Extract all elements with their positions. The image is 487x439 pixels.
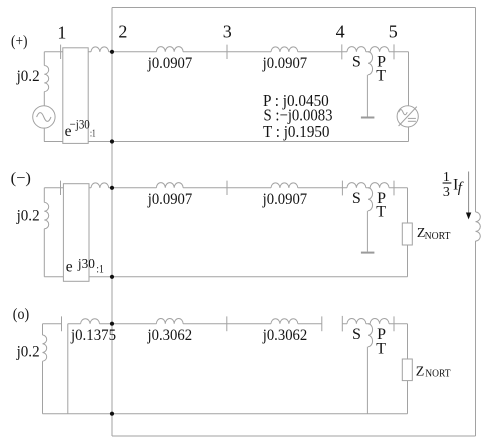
bus tick node 4 (+seq) — [341, 44, 343, 59]
phase shifting transformer box e^j30:1 (-seq) — [63, 184, 89, 282]
wire: 0seq rail from grounding riser through line sections — [68, 323, 322, 325]
svg-text:1: 1 — [57, 22, 66, 42]
inductor j0.3062 (bus2-bus3 line, 0seq) — [156, 319, 183, 324]
label e^-j30 : 1 (+seq box) — [65, 116, 96, 140]
svg-text:NORT: NORT — [425, 369, 451, 380]
inductor j0.2 (-seq source impedance) — [44, 202, 48, 228]
svg-text:T: T — [376, 340, 386, 357]
phase shifting transformer box e^-j30:1 (+seq) — [63, 48, 88, 144]
wire: -seq left column — [43, 188, 45, 277]
wire: 0seq right column — [407, 324, 409, 414]
svg-text:3: 3 — [223, 21, 232, 41]
three-winding transformer T winding (0seq, vertical) — [368, 324, 373, 347]
wire: -seq right column — [407, 188, 409, 277]
resistor Z_NORT (-seq Norton impedance) — [402, 223, 412, 245]
svg-text:j0.2: j0.2 — [16, 207, 40, 224]
three-winding transformer P winding (0seq) — [370, 319, 389, 324]
AC/DC converter source (+seq, right) — [397, 106, 418, 127]
inductor j0.1375 (0seq transformer) — [81, 319, 100, 324]
junction dot node 2 (0seq top) — [110, 322, 114, 326]
junction dot (+seq bottom rail) — [110, 139, 114, 143]
svg-text:(+): (+) — [11, 33, 28, 50]
junction dot node 2 (-seq top) — [110, 186, 114, 190]
inductor j0.0907 (bus3-bus4 line, -seq) — [271, 183, 298, 188]
current arrow 1/3 If — [466, 172, 471, 220]
svg-text:2: 2 — [118, 22, 127, 42]
inductor j0.3062 (bus3-bus4 line, 0seq) — [271, 319, 298, 324]
wire: -seq top rail — [44, 187, 407, 189]
wire: outer fault loop right rail lower segment — [475, 241, 477, 436]
bus tick open end left (0seq, delta block) — [321, 316, 323, 331]
text block P/S/T impedance values — [263, 91, 333, 141]
svg-text:j0.0907: j0.0907 — [262, 55, 308, 72]
svg-text:j0.0907: j0.0907 — [262, 191, 308, 208]
svg-text::1: :1 — [90, 128, 96, 140]
three-winding transformer P winding (+seq) — [370, 47, 389, 52]
svg-text:S: S — [352, 190, 361, 207]
wire: -seq bottom rail — [44, 276, 407, 278]
three-winding transformer S winding (-seq) — [347, 183, 366, 188]
wire: 0seq bottom rail — [43, 413, 408, 415]
ground (-seq T winding) — [361, 252, 375, 254]
svg-text:f: f — [458, 180, 464, 196]
bus tick node 3 (+seq) — [226, 45, 228, 59]
bus tick node 3 (0seq) — [226, 316, 228, 331]
ground (+seq T winding) — [361, 117, 375, 119]
inductor on fault return path (right rail coil) — [476, 212, 481, 241]
junction dot (0seq bottom rail) — [110, 412, 114, 416]
resistor Z_NORT (0seq Norton impedance) — [402, 359, 412, 381]
svg-text:j30: j30 — [77, 256, 95, 271]
bus tick node 5 (-seq) — [393, 181, 395, 196]
svg-text:4: 4 — [336, 21, 345, 41]
bus tick node 5 (0seq) — [393, 316, 395, 331]
wire: +seq right column to converter — [408, 52, 410, 142]
svg-text:T: T — [376, 68, 386, 85]
svg-text:(−): (−) — [11, 170, 31, 187]
svg-text:j0.2: j0.2 — [16, 343, 40, 360]
three-winding transformer P winding (-seq) — [370, 183, 389, 188]
svg-text:T : j0.1950: T : j0.1950 — [263, 122, 330, 141]
inductor j0.0907 (bus3-bus4 line, +seq) — [271, 47, 298, 52]
wire: T winding stem to ground (-seq) — [366, 211, 368, 252]
inductor j0.2 (+seq source impedance) — [44, 66, 48, 92]
wire: +seq top rail — [44, 51, 408, 53]
svg-text:S: S — [352, 53, 361, 70]
svg-text:T: T — [376, 204, 386, 221]
wire: T winding stem to bottom rail (0seq) — [366, 347, 368, 414]
three-winding transformer T winding (+seq, vertical) — [368, 52, 373, 75]
wire: 0seq grounding riser (transformer delta side) — [67, 324, 69, 414]
wire: 0seq left column — [42, 324, 44, 414]
svg-text::1: :1 — [96, 262, 104, 276]
wire: outer fault loop bottom rail — [112, 435, 476, 437]
svg-text:3: 3 — [443, 185, 450, 200]
svg-text:NORT: NORT — [425, 231, 451, 242]
wire: +seq left column — [43, 52, 45, 142]
wire: 0seq top rail left stub to bus1 tick — [43, 323, 62, 325]
three-winding transformer S winding (0seq) — [347, 319, 366, 324]
inductor j0.0907 (bus2-bus3 line, -seq) — [156, 183, 183, 188]
bus tick node 1 (0seq, open) — [61, 316, 63, 331]
transformer leakage coil after phase-shift box (+seq) — [91, 47, 109, 52]
svg-text:−j30: −j30 — [70, 116, 90, 131]
svg-text:j0.0907: j0.0907 — [147, 55, 193, 72]
bus tick node 4 (-seq) — [341, 181, 343, 196]
svg-text:j0.3062: j0.3062 — [262, 327, 307, 344]
junction dot node 2 (+seq top) — [110, 50, 114, 54]
label Z_NORT (0seq) — [416, 365, 451, 380]
AC source (+seq generator) — [33, 106, 55, 128]
label e^j30 : 1 (-seq box) — [66, 256, 104, 276]
wire: outer fault loop top rail — [112, 7, 476, 9]
wire: +seq bottom rail — [44, 141, 409, 143]
svg-text:(o): (o) — [13, 306, 29, 323]
transformer leakage coil after phase-shift box (-seq) — [91, 183, 109, 188]
svg-text:j0.3062: j0.3062 — [147, 327, 192, 344]
svg-text:j0.0907: j0.0907 — [147, 191, 193, 208]
wire: T winding stem to ground (+seq) — [366, 75, 368, 117]
wire: 0seq S-P-T branch rail — [342, 323, 407, 325]
wire: fault-bus vertical tie (node 2 bus, x=112) — [111, 8, 113, 437]
bus tick node 1 (+seq) — [60, 45, 62, 59]
svg-text:Z: Z — [416, 365, 425, 380]
label Z_NORT (-seq) — [417, 226, 451, 242]
inductor j0.0907 (bus2-bus3 line, +seq) — [156, 47, 183, 52]
svg-text:j0.1375: j0.1375 — [70, 327, 116, 344]
bus tick node 3 (-seq) — [226, 181, 228, 195]
svg-text:5: 5 — [389, 21, 398, 41]
svg-text:S: S — [352, 326, 361, 343]
svg-text:j0.2: j0.2 — [16, 68, 40, 85]
wire: outer fault loop right rail upper segment — [475, 8, 477, 213]
three-winding transformer S winding (+seq) — [347, 47, 366, 52]
label 1/3 If — [443, 170, 464, 200]
svg-text:e: e — [66, 259, 73, 276]
inductor j0.2 (0seq source impedance) — [43, 335, 47, 361]
bus tick node 1 (-seq) — [60, 181, 62, 195]
three-winding transformer T winding (-seq, vertical) — [368, 188, 373, 211]
junction dot (-seq bottom rail) — [110, 275, 114, 279]
bus tick open end right (0seq, delta block) — [341, 316, 343, 332]
bus tick node 5 (+seq) — [393, 44, 395, 59]
